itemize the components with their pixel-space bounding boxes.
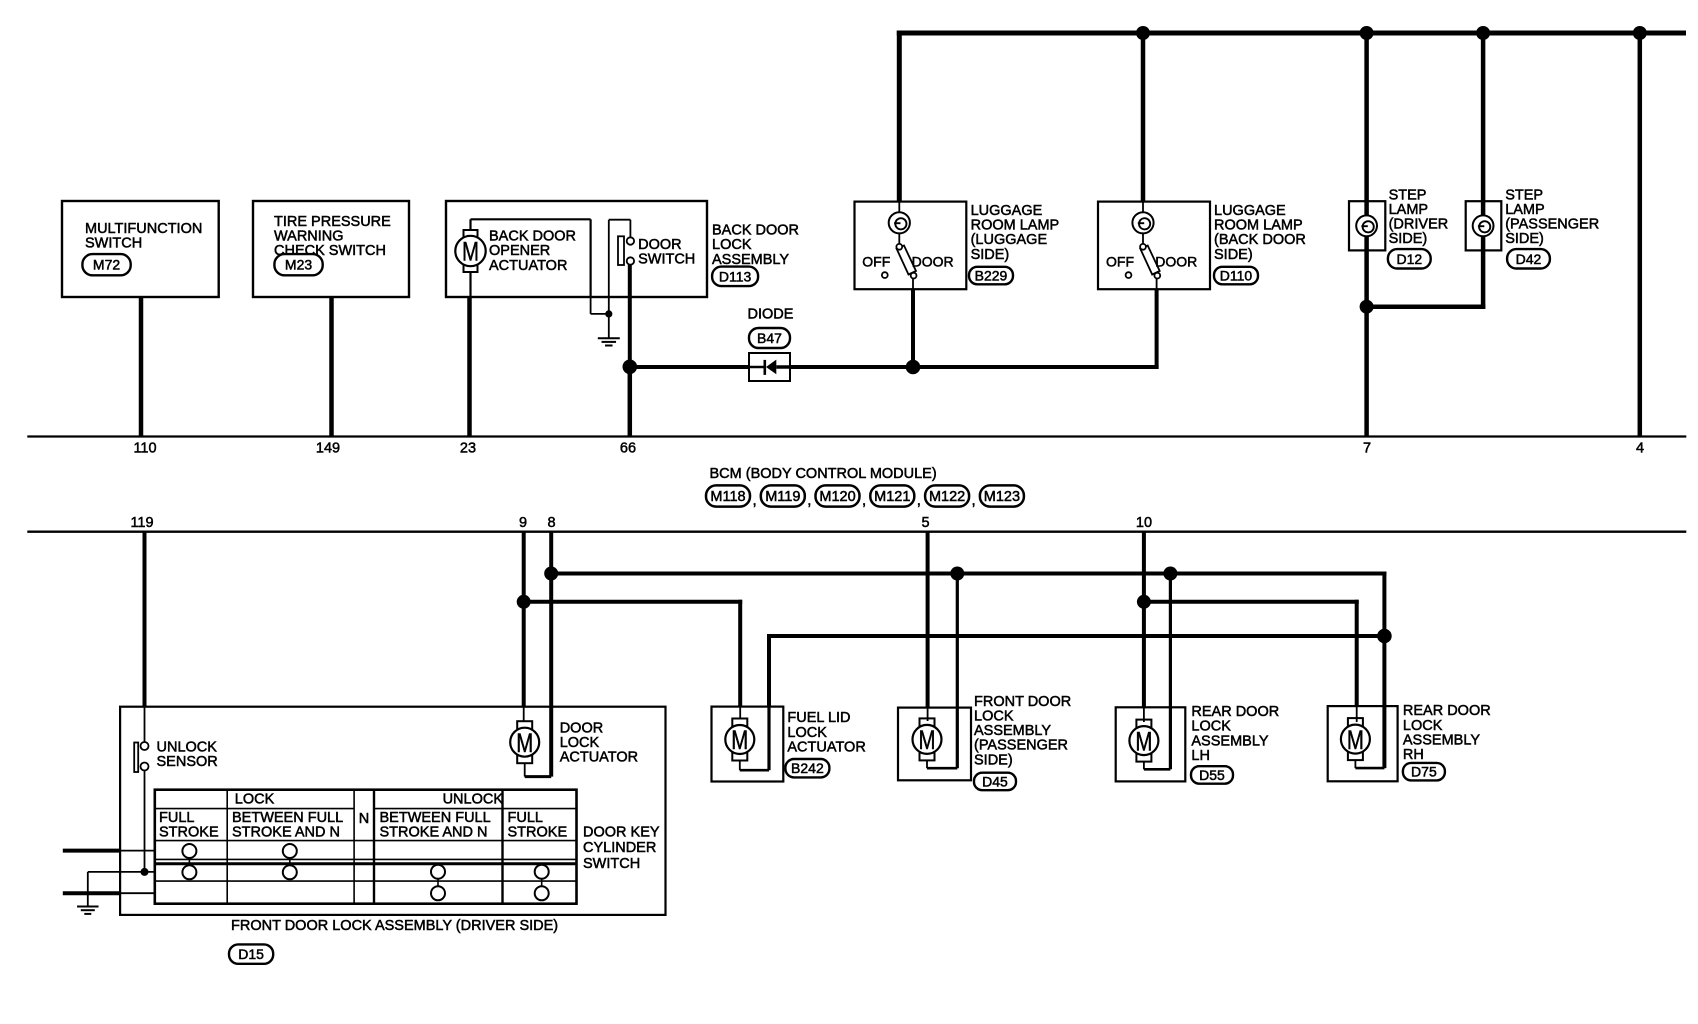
component box: STEP LAMP (DRIVER SIDE) D12 <box>1349 201 1385 250</box>
svg-text:M121: M121 <box>874 489 910 505</box>
contact link unlock full-stroke <box>541 879 543 887</box>
label: LUGGAGE ROOM LAMP (BACK DOOR SIDE) / D110 <box>1214 203 1306 284</box>
junction dot line A to D45 <box>950 567 964 581</box>
diode B47 <box>748 306 794 381</box>
svg-text:M118: M118 <box>710 489 745 505</box>
junction dot on pin 9 wire <box>517 595 531 609</box>
wire: BCM pin 5 drop to D45 <box>926 532 930 721</box>
contact: unlock full-stroke row3 <box>535 886 549 900</box>
wire: diode to luggage lamp junction <box>790 365 913 369</box>
svg-text:ACTUATOR: ACTUATOR <box>489 258 567 274</box>
label: STEP LAMP (DRIVER SIDE) / D12 <box>1388 187 1448 268</box>
junction dot at back-door-side lamp drop <box>1136 26 1150 40</box>
ground symbol at front door lock assembly <box>77 907 99 914</box>
svg-text:STEP: STEP <box>1505 187 1543 203</box>
wire: junction to luggage room lamp D110 drop <box>913 289 1159 369</box>
wire: line A leg down to D55 bottom <box>1144 574 1171 770</box>
label: BCM (BODY CONTROL MODULE) <box>710 466 937 482</box>
svg-text:ASSEMBLY: ASSEMBLY <box>974 723 1051 739</box>
svg-text:LUGGAGE: LUGGAGE <box>971 203 1043 219</box>
comma <box>972 492 976 509</box>
svg-text:(PASSENGER: (PASSENGER <box>1505 217 1599 233</box>
component box: REAR DOOR LOCK ASSEMBLY LH D55 <box>1116 707 1186 781</box>
label: LUGGAGE ROOM LAMP (LUGGAGE SIDE) / B229 <box>969 203 1059 284</box>
svg-text:M120: M120 <box>819 489 855 505</box>
label: REAR DOOR LOCK ASSEMBLY LH / D55 <box>1191 704 1279 784</box>
svg-text:FRONT DOOR LOCK ASSEMBLY (DRIV: FRONT DOOR LOCK ASSEMBLY (DRIVER SIDE) <box>231 918 558 934</box>
svg-text:SIDE): SIDE) <box>1505 231 1544 247</box>
wire: unlock feed line B to fuel lid actuator <box>524 600 743 707</box>
svg-text:LOCK: LOCK <box>712 237 752 253</box>
svg-text:5: 5 <box>921 515 929 531</box>
svg-text:D55: D55 <box>1199 767 1225 783</box>
pin label 8 <box>547 515 555 531</box>
svg-text:(LUGGAGE: (LUGGAGE <box>971 232 1048 248</box>
svg-text:110: 110 <box>133 440 156 456</box>
BCM bottom boundary line <box>27 531 1686 533</box>
component box: MULTIFUNCTION SWITCH M72 <box>62 201 219 297</box>
connector M118 <box>706 485 750 506</box>
svg-text:D113: D113 <box>719 268 752 284</box>
component box: REAR DOOR LOCK ASSEMBLY RH D75 <box>1328 706 1398 781</box>
ground symbol below back door lock assembly <box>598 314 620 346</box>
svg-text:M: M <box>1347 725 1364 755</box>
svg-text:M: M <box>919 725 936 755</box>
label: DOOR KEY CYLINDER SWITCH <box>583 824 660 872</box>
svg-text:N: N <box>359 811 369 827</box>
svg-text:LAMP: LAMP <box>1505 202 1545 218</box>
svg-text:DOOR: DOOR <box>560 720 604 736</box>
svg-text:D75: D75 <box>1411 764 1437 780</box>
svg-text:M: M <box>462 237 479 267</box>
wire: pin 8 junction down to actuator bottom jog <box>525 574 552 777</box>
connector M119 <box>761 485 805 506</box>
svg-text:TIRE PRESSURE: TIRE PRESSURE <box>274 214 391 230</box>
svg-text:,: , <box>917 492 921 509</box>
svg-text:STROKE AND N: STROKE AND N <box>232 825 340 841</box>
svg-text:D12: D12 <box>1396 251 1422 267</box>
wire: line A leg down to D45 bottom <box>927 574 957 769</box>
svg-text:DOOR: DOOR <box>912 254 954 270</box>
contact: lock between row2 <box>283 865 297 879</box>
wire: BCM pin 8 drop <box>549 532 553 574</box>
component box: LUGGAGE ROOM LAMP (LUGGAGE SIDE) B229 <box>855 202 967 290</box>
pin label 5 <box>921 515 929 531</box>
wire: node 66 to diode <box>630 365 749 369</box>
svg-text:(DRIVER: (DRIVER <box>1389 217 1449 233</box>
BCM top boundary line <box>27 435 1686 437</box>
svg-text:4: 4 <box>1636 440 1644 456</box>
svg-text:FRONT DOOR: FRONT DOOR <box>974 694 1071 710</box>
pin label 119 <box>130 515 153 531</box>
svg-text:M123: M123 <box>984 489 1020 505</box>
pin label 23 <box>460 440 476 456</box>
svg-text:8: 8 <box>547 515 555 531</box>
wire: ground net horizontal into switch table row 2 <box>88 871 155 873</box>
svg-text:(PASSENGER: (PASSENGER <box>974 738 1068 754</box>
wire: back door opener motor top loop <box>471 219 609 314</box>
wire: BCM pin 119 to unlock sensor <box>143 532 147 743</box>
junction dot line A to D55 <box>1163 567 1177 581</box>
svg-text:,: , <box>862 492 866 509</box>
svg-text:149: 149 <box>316 440 340 456</box>
junction dot on sensor ground wire <box>141 868 149 876</box>
svg-text:,: , <box>972 492 976 509</box>
wire: M72 to BCM pin 110 <box>139 297 144 437</box>
motor: back door opener actuator <box>455 229 576 274</box>
svg-text:(BACK DOOR: (BACK DOOR <box>1214 232 1306 248</box>
wire: line B2 down to D75 motor <box>1356 706 1358 722</box>
svg-text:LOCK: LOCK <box>787 725 827 741</box>
svg-text:LOCK: LOCK <box>974 709 1014 725</box>
wire: top bus to BCM pin 4 <box>1638 33 1643 437</box>
svg-text:SIDE): SIDE) <box>1214 247 1253 263</box>
component box: FRONT DOOR LOCK ASSEMBLY (DRIVER SIDE) D15 <box>120 707 665 915</box>
wire: motor to BCM pin 23 <box>470 272 471 437</box>
svg-text:WARNING: WARNING <box>274 229 344 245</box>
wire: top supply bus <box>897 31 1686 36</box>
contact: lock full-stroke row2 <box>182 865 196 879</box>
svg-text:ASSEMBLY: ASSEMBLY <box>1403 732 1480 748</box>
svg-text:SWITCH: SWITCH <box>583 856 640 872</box>
svg-text:7: 7 <box>1363 440 1371 456</box>
component box: STEP LAMP (PASSENGER SIDE) D42 <box>1466 201 1502 250</box>
label: FUEL LID LOCK ACTUATOR / B242 <box>785 710 865 777</box>
label: REAR DOOR LOCK ASSEMBLY RH / D75 <box>1403 703 1491 780</box>
switch: door switch in D113 <box>609 220 695 314</box>
svg-text:10: 10 <box>1136 515 1152 531</box>
svg-text:LOCK: LOCK <box>1191 719 1231 735</box>
pin label 66 <box>620 440 636 456</box>
wire: drop to luggage room lamp B229 <box>897 31 902 202</box>
svg-text:9: 9 <box>519 515 527 531</box>
comma <box>917 492 921 509</box>
comma <box>862 492 866 509</box>
svg-text:LOCK: LOCK <box>1403 718 1443 734</box>
svg-text:FUEL LID: FUEL LID <box>787 710 850 726</box>
wire: ground net down leg <box>87 872 89 906</box>
pin label 7 <box>1363 440 1371 456</box>
svg-text:M: M <box>1135 726 1152 756</box>
pin label 9 <box>519 515 527 531</box>
svg-text:M72: M72 <box>93 257 120 273</box>
svg-text:SIDE): SIDE) <box>974 752 1013 768</box>
wire: D75 leg inside box <box>1355 706 1384 768</box>
svg-text:STROKE: STROKE <box>159 825 219 841</box>
svg-text:BETWEEN FULL: BETWEEN FULL <box>380 810 491 826</box>
svg-text:DOOR: DOOR <box>638 237 682 253</box>
svg-text:D110: D110 <box>1220 268 1253 284</box>
svg-text:LH: LH <box>1191 748 1210 764</box>
connector M121 <box>870 485 914 506</box>
svg-text:STROKE AND N: STROKE AND N <box>380 825 488 841</box>
wire: M23 to BCM pin 149 <box>329 297 334 437</box>
svg-text:ROOM LAMP: ROOM LAMP <box>971 218 1060 234</box>
comma <box>753 492 757 509</box>
svg-text:B47: B47 <box>757 330 782 346</box>
component box: LUGGAGE ROOM LAMP (BACK DOOR SIDE) D110 <box>1098 202 1210 290</box>
wire: unlock sensor to ground net <box>144 770 146 872</box>
wire: jog from passenger lamp to driver wire <box>1367 304 1486 309</box>
svg-text:STROKE: STROKE <box>508 825 568 841</box>
junction dot at node 66 <box>623 360 638 375</box>
svg-text:DIODE: DIODE <box>748 306 794 322</box>
svg-text:23: 23 <box>460 440 476 456</box>
pin label 149 <box>316 440 340 456</box>
svg-text:SIDE): SIDE) <box>971 247 1010 263</box>
connector M122 <box>925 485 969 506</box>
svg-text:ACTUATOR: ACTUATOR <box>560 750 638 766</box>
wire: drop to luggage room lamp D110 <box>1141 33 1146 202</box>
svg-text:D45: D45 <box>982 774 1008 790</box>
junction dot at step lamp passenger drop <box>1476 26 1490 40</box>
svg-text:BETWEEN FULL: BETWEEN FULL <box>232 810 343 826</box>
svg-text:BCM (BODY CONTROL MODULE): BCM (BODY CONTROL MODULE) <box>710 466 937 482</box>
svg-text:OFF: OFF <box>862 254 890 270</box>
svg-text:REAR DOOR: REAR DOOR <box>1191 704 1279 720</box>
svg-text:ASSEMBLY: ASSEMBLY <box>1191 733 1268 749</box>
motor: rear door lock actuator LH <box>1129 720 1158 762</box>
wire: step lamp driver drop to BCM pin 7 <box>1364 33 1369 437</box>
svg-text:STEP: STEP <box>1389 187 1427 203</box>
svg-text:119: 119 <box>130 515 153 531</box>
wire: D75 leg down <box>1382 636 1386 768</box>
svg-text:BACK DOOR: BACK DOOR <box>489 229 576 245</box>
pin label 110 <box>133 440 156 456</box>
wire: door switch to junction 66 <box>628 265 632 367</box>
svg-text:B229: B229 <box>975 268 1008 284</box>
table: door key cylinder switch <box>155 790 577 904</box>
label: FRONT DOOR LOCK ASSEMBLY (DRIVER SIDE) / D15 <box>229 918 558 964</box>
contact link lock full-stroke <box>188 858 190 865</box>
motor: door lock actuator (driver) <box>510 720 638 765</box>
svg-text:SIDE): SIDE) <box>1389 231 1428 247</box>
svg-text:M: M <box>731 725 748 755</box>
svg-text:M: M <box>516 728 533 758</box>
wire: fuel lid return line C <box>767 634 1384 707</box>
svg-text:,: , <box>753 492 757 509</box>
unlock sensor <box>134 739 218 772</box>
contact: unlock between row3 <box>431 886 445 900</box>
svg-text:DOOR KEY: DOOR KEY <box>583 824 660 840</box>
svg-text:UNLOCK: UNLOCK <box>443 792 504 808</box>
svg-text:OFF: OFF <box>1106 254 1134 270</box>
junction dot at BCM pin 4 drop <box>1633 26 1647 40</box>
wire: external lead to table row 1 <box>63 849 155 853</box>
wire: pin 9 junction down to door lock actuator <box>522 602 526 721</box>
label: FRONT DOOR LOCK ASSEMBLY (PASSENGER SIDE) / D45 <box>974 694 1071 790</box>
svg-text:M23: M23 <box>285 257 312 273</box>
comma <box>807 492 811 509</box>
svg-text:BACK DOOR: BACK DOOR <box>712 223 799 239</box>
svg-text:MULTIFUNCTION: MULTIFUNCTION <box>85 221 202 237</box>
svg-text:66: 66 <box>620 440 636 456</box>
connector M123 <box>980 485 1024 506</box>
contact: lock between row1 <box>283 844 297 858</box>
junction dot on pin 8 wire <box>544 567 558 581</box>
wire: lock feed line A <box>551 572 1386 576</box>
svg-text:ACTUATOR: ACTUATOR <box>787 739 865 755</box>
contact: unlock between row2 <box>431 865 445 879</box>
wire: line A corner down to D75 <box>1382 572 1386 637</box>
contact: unlock full-stroke row2 <box>535 865 549 879</box>
contact link lock between <box>289 858 291 865</box>
svg-text:M119: M119 <box>765 489 800 505</box>
junction dot line C joins D75 leg <box>1377 629 1392 644</box>
junction dot on pin 10 wire <box>1137 595 1151 609</box>
svg-text:ROOM LAMP: ROOM LAMP <box>1214 218 1303 234</box>
svg-text:LOCK: LOCK <box>235 792 275 808</box>
svg-text:RH: RH <box>1403 747 1424 763</box>
wire: external lead to table row 3 <box>63 891 155 895</box>
svg-text:,: , <box>807 492 811 509</box>
svg-text:SWITCH: SWITCH <box>638 252 695 268</box>
contact: lock full-stroke row1 <box>182 844 196 858</box>
motor: front door lock actuator passenger <box>913 718 942 760</box>
svg-text:LOCK: LOCK <box>560 735 600 751</box>
wire: step lamp passenger drop <box>1481 33 1486 309</box>
component box: TIRE PRESSURE WARNING CHECK SWITCH M23 <box>253 201 409 297</box>
wire: unlock feed line B2 to D75 <box>1144 600 1359 706</box>
svg-text:UNLOCK: UNLOCK <box>157 739 218 755</box>
svg-text:FULL: FULL <box>159 810 194 826</box>
pin label 4 <box>1636 440 1644 456</box>
wire: B229 door contact down to junction <box>911 289 915 367</box>
svg-text:OPENER: OPENER <box>489 243 550 259</box>
label: STEP LAMP (PASSENGER SIDE) / D42 <box>1505 187 1599 268</box>
motor: rear door lock actuator RH <box>1341 718 1370 760</box>
contact link unlock between <box>437 879 439 887</box>
svg-text:B242: B242 <box>791 760 824 776</box>
svg-text:SENSOR: SENSOR <box>157 754 218 770</box>
component box: FRONT DOOR LOCK ASSEMBLY (PASSENGER SIDE) D45 <box>898 708 971 781</box>
junction dot at step lamp driver drop <box>1360 26 1374 40</box>
svg-text:LAMP: LAMP <box>1389 202 1429 218</box>
junction dot under luggage room lamp B229 <box>906 360 921 375</box>
label: BACK DOOR LOCK ASSEMBLY / D113 <box>712 223 799 287</box>
svg-text:DOOR: DOOR <box>1155 254 1197 270</box>
svg-text:D42: D42 <box>1516 251 1542 267</box>
svg-text:FULL: FULL <box>508 810 543 826</box>
connector M120 <box>816 485 860 506</box>
junction dot on step lamp driver wire <box>1360 300 1374 314</box>
wire: pin 10 junction down to D55 motor <box>1142 602 1146 722</box>
svg-text:D15: D15 <box>238 946 264 962</box>
svg-text:SWITCH: SWITCH <box>85 236 142 252</box>
svg-text:LUGGAGE: LUGGAGE <box>1214 203 1286 219</box>
component box: BACK DOOR LOCK ASSEMBLY D113 <box>446 201 707 297</box>
wire: node 66 to BCM pin 66 <box>628 367 633 437</box>
svg-text:REAR DOOR: REAR DOOR <box>1403 703 1491 719</box>
junction dot: door switch ground node <box>605 310 612 317</box>
motor: fuel lid lock actuator <box>725 707 769 771</box>
wire: BCM pin 10 drop to D55 <box>1142 532 1146 602</box>
svg-text:CYLINDER: CYLINDER <box>583 840 656 856</box>
component box: FUEL LID LOCK ACTUATOR B242 <box>712 707 784 782</box>
pin label 10 <box>1136 515 1152 531</box>
svg-text:M122: M122 <box>929 489 965 505</box>
wire: BCM pin 9 drop <box>522 532 526 602</box>
